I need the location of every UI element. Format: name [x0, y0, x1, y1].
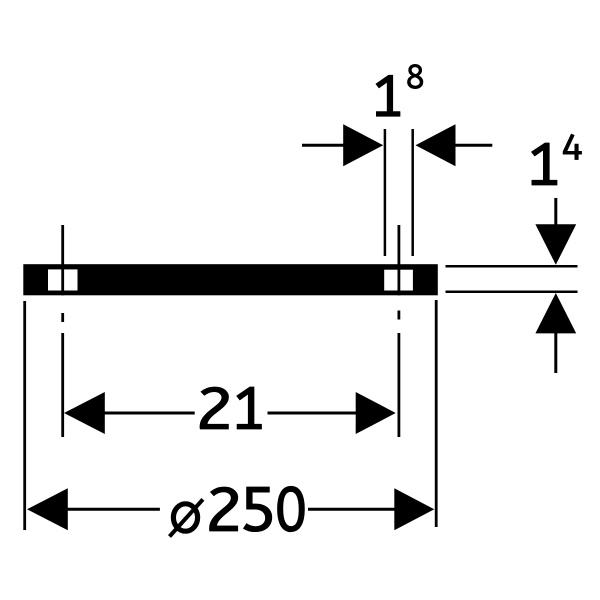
dimension 21: left arrowhead pointing left — [64, 392, 105, 434]
dimension 21: left dimension line segment — [104, 412, 194, 415]
left center line lower solid segment (dimension 21 extension) — [61, 333, 64, 437]
dimension 1.8: left extension line — [384, 129, 387, 256]
dimension 1.4: lower leader stem — [554, 333, 557, 373]
left center line dot dash below bar — [61, 313, 64, 322]
dimension text 1.4: superscript digit 4 — [563, 134, 582, 160]
right center line dot dash below bar — [397, 311, 400, 320]
dimension 250: right extension line — [435, 300, 438, 527]
right center line lower solid segment (dimension 21 extension) — [397, 333, 400, 437]
dimension 250: right dimension line segment — [308, 508, 395, 511]
dimension 1.8: right extension line — [411, 129, 414, 256]
dimension text 21: digit 1 — [237, 387, 262, 429]
dimension 1.4: downward arrowhead — [535, 224, 576, 264]
dimension 1.4: bottom extension line — [446, 291, 578, 294]
left center line (dash-dot), upper solid segment — [61, 225, 64, 295]
dimension 1.4: upper leader stem — [554, 198, 557, 225]
dimension 1.4: top extension line — [446, 265, 578, 268]
dimension 1.8: right leader line — [455, 144, 492, 147]
dimension 250: left extension line — [23, 301, 26, 530]
dimension 250: left dimension line segment — [67, 508, 160, 511]
right center line (dash-dot), upper solid segment — [397, 225, 400, 295]
dimension 1.4: upward arrowhead — [535, 293, 576, 333]
right groove cutout — [384, 270, 413, 291]
dimension text 1.4: digit 1 — [531, 143, 556, 185]
dimension 21: right arrowhead pointing right — [356, 392, 396, 434]
dimension 250: right arrowhead pointing right — [394, 488, 434, 530]
left groove cutout — [48, 269, 78, 290]
dimension text 21: digit 2 — [200, 387, 228, 429]
diameter symbol of ø250 — [173, 504, 197, 531]
dimension 1.8: left arrowhead pointing right — [343, 124, 383, 166]
gasket cross-section bar — [23, 264, 438, 295]
dimension text 250: digit 5 — [244, 487, 272, 532]
dimension text 250: digit 2 — [209, 487, 237, 531]
dimension text 1.8: superscript digit 8 — [407, 64, 423, 88]
dimension 1.8: right arrowhead pointing left — [416, 124, 456, 166]
dimension 21: right dimension line segment — [268, 412, 357, 415]
dimension 250: left arrowhead pointing left — [27, 488, 68, 530]
dimension text 250: digit 0 — [278, 486, 305, 531]
dimension text 1.8: digit 1 — [376, 75, 400, 116]
dimension 1.8: left leader line — [302, 144, 344, 147]
